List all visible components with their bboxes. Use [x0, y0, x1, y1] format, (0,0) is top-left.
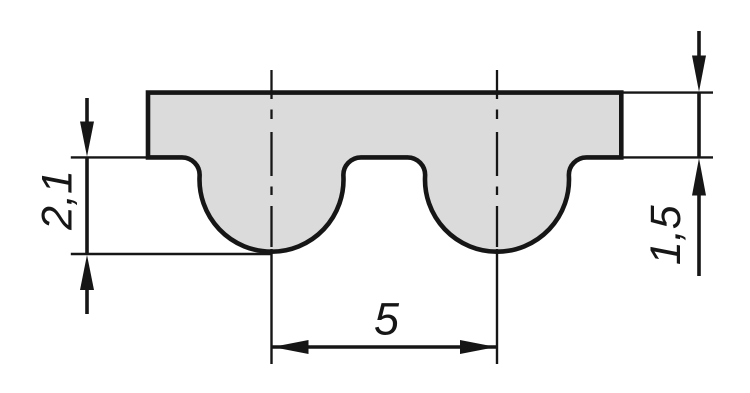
dimension line 2,1 top arrow	[80, 98, 94, 157]
dimension text 2,1	[34, 170, 82, 231]
centerline tooth 1	[270, 70, 272, 247]
extension line pitch left (below tooth 1)	[270, 249, 272, 364]
dimension 5 right arrow	[460, 340, 496, 354]
dimension 5 left arrow	[273, 340, 309, 354]
dimension text 1,5	[642, 204, 690, 265]
dimension line 2,1 bottom arrow	[80, 255, 94, 314]
dimension line 1,5 bottom arrow	[692, 158, 706, 276]
dimension line 2,1 middle segment	[85, 157, 89, 254]
extension line root right (1,5 bottom)	[623, 156, 713, 158]
centerline tooth 2	[496, 70, 498, 247]
extension line top surface right (1,5 top)	[623, 91, 713, 93]
dimension text 5	[374, 294, 400, 345]
dimension line 1,5 middle segment	[697, 93, 701, 158]
svg-text:1,5: 1,5	[642, 204, 690, 265]
svg-text:2,1: 2,1	[34, 170, 82, 231]
svg-text:5: 5	[374, 294, 400, 345]
belt profile (HTD timing belt cross-section)	[148, 93, 621, 252]
dimension line 5	[273, 345, 497, 349]
dimension line 1,5 top arrow	[692, 31, 706, 92]
extension line pitch right (below tooth 2)	[496, 249, 498, 364]
extension line tooth bottom (2,1 bottom)	[71, 253, 273, 255]
extension line left root (2,1 top)	[71, 156, 150, 158]
